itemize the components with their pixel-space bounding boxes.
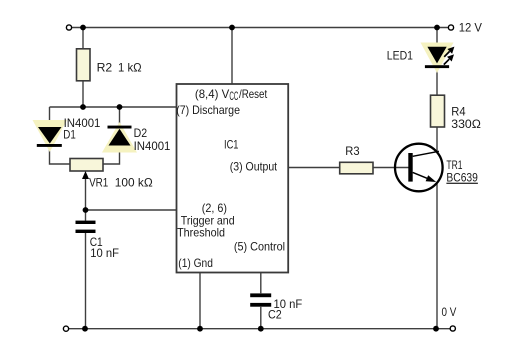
wire R2 bottom lead to discharge net xyxy=(82,81,84,107)
svg-text:Threshold: Threshold xyxy=(177,226,225,240)
pin (2,6) Trigger and Threshold xyxy=(177,201,235,240)
wire D2 branch xyxy=(103,107,120,164)
diode D1 glow xyxy=(33,120,68,152)
wire top supply rail xyxy=(72,27,449,29)
diode D1 xyxy=(37,127,62,147)
label VR1 value xyxy=(89,176,153,190)
node junction Vcc/top rail xyxy=(229,25,235,31)
wire R2 top lead xyxy=(82,28,84,49)
transistor Q1 TR1 xyxy=(395,144,443,192)
svg-text:12 V: 12 V xyxy=(459,21,482,35)
svg-text:D1: D1 xyxy=(63,127,76,141)
terminal 12V xyxy=(448,25,453,30)
svg-text:100 kΩ: 100 kΩ xyxy=(115,176,153,190)
node junction wiper/trigger xyxy=(83,207,89,213)
resistor R2 xyxy=(77,49,91,81)
svg-text:0 V: 0 V xyxy=(442,305,457,319)
wire Vcc/Reset pin lead xyxy=(231,28,233,85)
wire VR1 wiper to trigger node xyxy=(85,176,87,210)
terminal 0V xyxy=(450,326,455,331)
node junction R2/discharge xyxy=(80,104,86,110)
terminal bottom-left 0V xyxy=(63,326,68,331)
wire bottom 0V rail xyxy=(69,328,451,330)
label R4 value xyxy=(451,105,481,131)
wire LED cathode to R4 xyxy=(436,68,438,96)
svg-text:R3: R3 xyxy=(345,144,360,158)
wire Gnd pin lead xyxy=(199,273,201,329)
wire C1 top lead xyxy=(85,210,87,221)
svg-text:(7) Discharge: (7) Discharge xyxy=(176,103,240,117)
wire output to R3 xyxy=(288,167,340,169)
capacitor C2 xyxy=(250,293,271,306)
diode D2 glow xyxy=(102,122,137,153)
svg-text:IC1: IC1 xyxy=(224,138,239,152)
svg-text:/Reset: /Reset xyxy=(239,87,268,101)
node junction R2/top rail xyxy=(80,25,86,31)
wire C1 bottom lead xyxy=(85,233,87,329)
wire discharge net horizontal xyxy=(50,106,177,108)
wire R3 to transistor base xyxy=(373,167,409,169)
svg-text:10 nF: 10 nF xyxy=(90,246,119,260)
diode D2 xyxy=(108,126,132,146)
LED LED1 xyxy=(425,47,455,69)
label C1 value xyxy=(90,235,119,260)
wire D1 branch xyxy=(50,107,71,164)
svg-text:CC: CC xyxy=(229,89,238,103)
svg-text:(3) Output: (3) Output xyxy=(230,160,278,174)
label R2 value xyxy=(97,61,142,75)
label C2 value xyxy=(268,297,302,322)
svg-text:LED1: LED1 xyxy=(387,48,413,62)
wire control pin lead xyxy=(260,273,262,329)
svg-text:C2: C2 xyxy=(268,307,282,321)
svg-text:VR1: VR1 xyxy=(89,176,108,190)
svg-text:(1) Gnd: (1) Gnd xyxy=(178,256,213,270)
node junction LED/top rail xyxy=(434,25,440,31)
op-amp IC1 box (555 timer) xyxy=(177,84,289,273)
svg-text:330Ω: 330Ω xyxy=(451,117,481,131)
potentiometer VR1 xyxy=(70,159,103,180)
node junction C2/0V rail xyxy=(258,326,264,332)
label D1 xyxy=(63,116,100,141)
resistor R4 xyxy=(431,95,445,127)
node junction emitter/0V rail xyxy=(433,326,439,332)
label D2 xyxy=(134,126,171,153)
terminal top-left supply xyxy=(66,25,71,30)
capacitor C1 xyxy=(76,221,96,233)
pin (8,4) Vcc/Reset xyxy=(195,87,268,103)
resistor R3 xyxy=(340,162,373,174)
LED1 glow xyxy=(421,43,454,74)
svg-text:1 kΩ: 1 kΩ xyxy=(118,61,142,75)
wire emitter to 0V rail xyxy=(436,184,438,329)
svg-text:R2: R2 xyxy=(97,61,113,75)
svg-text:BC639: BC639 xyxy=(446,171,478,185)
svg-text:(5) Control: (5) Control xyxy=(234,240,285,254)
svg-text:(8,4) V: (8,4) V xyxy=(195,87,229,101)
wire 12V to LED anode xyxy=(436,28,438,48)
node junction Gnd/0V rail xyxy=(197,326,203,332)
wire R4 to collector xyxy=(436,127,438,152)
wire trigger/threshold net xyxy=(86,209,177,211)
node junction C1/0V rail xyxy=(82,326,88,332)
svg-text:IN4001: IN4001 xyxy=(134,139,171,153)
node junction D2/discharge xyxy=(117,104,123,110)
